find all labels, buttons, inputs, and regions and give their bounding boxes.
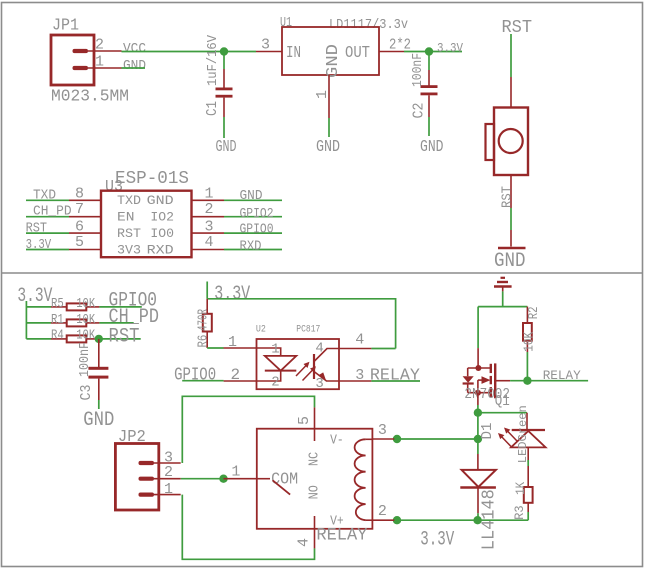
- svg-text:1: 1: [164, 481, 173, 498]
- pin 6 RST: [69, 232, 101, 234]
- relay K1: [257, 407, 395, 548]
- wire R6 to opto pin 1: [207, 347, 223, 349]
- opto LED: [257, 348, 281, 356]
- svg-text:D1: D1: [480, 423, 496, 440]
- node junction source/LED: [474, 409, 482, 417]
- wire R1 to CH_PD: [99, 322, 133, 324]
- wire Q1 source down: [477, 393, 479, 405]
- svg-text:VCC: VCC: [123, 42, 146, 57]
- capacitor C2: [410, 53, 438, 119]
- svg-text:RST: RST: [109, 326, 140, 349]
- svg-text:R3: R3: [512, 505, 527, 520]
- svg-text:1: 1: [228, 334, 237, 351]
- opto emission arrows: [296, 362, 316, 381]
- wire GPIO0 to opto pin 2: [182, 380, 223, 382]
- svg-text:C2: C2: [411, 103, 428, 119]
- pin 7 CH_PD: [69, 216, 101, 218]
- Q1 body diode: [467, 368, 469, 376]
- svg-text:GND: GND: [316, 138, 340, 157]
- svg-text:5: 5: [75, 234, 84, 251]
- svg-text:100nF: 100nF: [410, 53, 426, 87]
- svg-text:TXD: TXD: [33, 188, 56, 203]
- svg-text:10K: 10K: [76, 313, 96, 328]
- resistor R4 10K: [51, 328, 99, 343]
- svg-text:IO2: IO2: [150, 210, 174, 225]
- svg-text:GPIO0: GPIO0: [174, 365, 216, 385]
- wire button to GND: [510, 175, 512, 208]
- wire 3.3V to resistor rows: [25, 301, 27, 339]
- svg-text:1K: 1K: [513, 482, 528, 495]
- node junction D1/relay V-: [474, 435, 482, 443]
- svg-text:GND: GND: [147, 193, 174, 208]
- svg-text:RXD: RXD: [147, 243, 174, 258]
- svg-text:2: 2: [378, 503, 387, 520]
- svg-text:3: 3: [315, 376, 323, 392]
- wire LED to R3: [527, 460, 529, 466]
- relay coil: [355, 439, 366, 520]
- svg-text:RST: RST: [117, 226, 141, 241]
- svg-text:GPIO2: GPIO2: [240, 207, 274, 222]
- svg-text:1uF/16V: 1uF/16V: [205, 34, 221, 86]
- wire D1 to bottom rail: [477, 513, 479, 520]
- svg-text:GND: GND: [324, 44, 343, 78]
- wire power to Q1/R2: [502, 291, 504, 306]
- wire JP2 pin3 to relay NC: [182, 396, 314, 463]
- wire VCC from JP1 to node: [122, 51, 225, 53]
- node junction JP2 pin2: [219, 475, 227, 483]
- svg-text:R2: R2: [527, 307, 542, 320]
- frame divider: [2, 272, 643, 274]
- pushbutton S1 RST: [486, 108, 529, 176]
- svg-text:U2: U2: [256, 325, 266, 336]
- pin 8 TXD: [69, 199, 101, 201]
- svg-text:GPIO0: GPIO0: [240, 223, 274, 238]
- svg-text:2: 2: [95, 37, 104, 54]
- svg-text:1: 1: [205, 186, 214, 203]
- svg-text:RST: RST: [26, 222, 47, 237]
- wire R2 to RELAY node: [526, 352, 528, 381]
- relay NC pin 5: [314, 429, 316, 441]
- node junction 3.3V/C2: [425, 47, 433, 55]
- svg-text:RELAY: RELAY: [316, 526, 368, 545]
- svg-text:10K: 10K: [523, 331, 538, 352]
- wire node to 3.3V label: [429, 51, 462, 53]
- wire bottom rail 3.3V: [397, 519, 528, 521]
- connector JP2: [115, 428, 180, 510]
- svg-text:3.3V: 3.3V: [420, 529, 454, 552]
- resistor R2 10K: [523, 307, 543, 353]
- node junction relay pin2: [393, 516, 401, 524]
- node junction gate/R2: [523, 377, 531, 385]
- wire JP2 pin1 to relay NO: [182, 495, 314, 560]
- diode D1 LL4148: [460, 423, 499, 551]
- svg-text:RELAY: RELAY: [370, 367, 420, 386]
- pin 1 of U2: [224, 347, 257, 349]
- svg-text:V-: V-: [330, 434, 344, 449]
- svg-text:4: 4: [296, 538, 313, 547]
- wire node to U1 IN: [224, 51, 256, 53]
- pin 2 of U1 output: [379, 51, 404, 53]
- svg-text:3: 3: [261, 37, 270, 54]
- relay NO pin 4: [314, 516, 316, 529]
- svg-text:3.3V: 3.3V: [17, 285, 52, 308]
- resistor R5 10K: [51, 297, 99, 312]
- resistor R6 470R: [197, 299, 212, 348]
- node junction D1/bottom rail: [473, 516, 481, 524]
- svg-text:GND: GND: [216, 138, 237, 157]
- LED LEDGreen: [498, 405, 546, 463]
- svg-text:2: 2: [164, 464, 173, 481]
- capacitor C1: [204, 34, 233, 117]
- module U3 ESP-01S: [101, 169, 192, 258]
- optocoupler U2 PC817: [256, 325, 339, 393]
- wire 3.3V rail to opto pin4: [207, 299, 395, 349]
- node junction relay pin3: [393, 435, 401, 443]
- capacitor C3: [78, 339, 108, 401]
- svg-text:4: 4: [205, 234, 214, 251]
- power symbol 3.3V top right: [494, 278, 512, 292]
- svg-text:NO: NO: [307, 485, 323, 499]
- svg-text:3.3V: 3.3V: [26, 238, 52, 253]
- svg-text:GND: GND: [494, 250, 526, 273]
- wire RST to button: [510, 34, 512, 77]
- svg-text:OUT: OUT: [345, 44, 370, 63]
- pin 1 GND: [192, 199, 225, 201]
- wire C3 to GND: [98, 400, 100, 409]
- svg-text:GND: GND: [420, 138, 444, 157]
- svg-text:2: 2: [271, 375, 279, 391]
- svg-text:IO0: IO0: [150, 226, 174, 241]
- svg-text:1: 1: [271, 342, 279, 358]
- pin 4 RXD: [192, 249, 225, 251]
- svg-text:R4: R4: [51, 328, 64, 343]
- svg-text:R6: R6: [197, 335, 212, 348]
- node junction VCC/C1: [220, 47, 228, 55]
- pin 3 GPIO0: [192, 232, 225, 234]
- svg-text:1: 1: [314, 90, 331, 99]
- resistor R3 1K: [512, 466, 533, 520]
- svg-text:ESP-01S: ESP-01S: [115, 169, 189, 189]
- wire U1 out to node: [404, 51, 429, 53]
- wire C1 to GND: [223, 117, 225, 138]
- svg-text:GND: GND: [83, 409, 114, 432]
- svg-text:8: 8: [75, 186, 84, 203]
- relay pin 2: [372, 519, 394, 521]
- svg-text:LEDGreen: LEDGreen: [516, 405, 530, 463]
- svg-text:7: 7: [75, 201, 84, 218]
- svg-text:EN: EN: [117, 210, 135, 225]
- svg-text:C3: C3: [78, 385, 95, 401]
- svg-text:C1: C1: [204, 101, 221, 116]
- wire relay V- to D1 node: [397, 438, 478, 440]
- transistor Q1 2N7002: [463, 363, 510, 409]
- node junction RST/C3: [95, 335, 103, 343]
- svg-text:3V3: 3V3: [117, 243, 141, 258]
- svg-text:GND: GND: [240, 189, 263, 204]
- svg-text:2: 2: [205, 201, 214, 218]
- svg-text:1: 1: [95, 54, 104, 71]
- svg-text:4: 4: [315, 341, 323, 357]
- svg-text:PC817: PC817: [296, 325, 320, 336]
- svg-text:R1: R1: [51, 313, 64, 328]
- svg-text:COM: COM: [271, 470, 298, 489]
- pin 2 GPIO2: [192, 216, 225, 218]
- pin 4 of U2: [339, 348, 371, 350]
- wire R4 to RST: [99, 338, 140, 340]
- svg-text:CH_PD: CH_PD: [33, 205, 72, 220]
- svg-text:IN: IN: [286, 44, 301, 63]
- ground symbol: [498, 247, 526, 250]
- pin 3 of U1: [256, 51, 282, 53]
- svg-text:3.3V: 3.3V: [437, 41, 463, 56]
- svg-text:NC: NC: [307, 452, 323, 466]
- svg-text:3.3V: 3.3V: [214, 283, 250, 306]
- pin 1 of U1 to GND: [328, 75, 330, 118]
- relay switch arm: [257, 478, 270, 480]
- svg-text:10K: 10K: [76, 328, 96, 343]
- svg-text:GND: GND: [123, 59, 146, 74]
- power label 3.3V mid: [206, 282, 208, 299]
- svg-text:Q1: Q1: [495, 394, 510, 410]
- svg-text:TXD: TXD: [117, 193, 141, 208]
- pin 3 of U2 to RELAY: [339, 380, 371, 382]
- regulator U1 LD1117/3.3v: [280, 15, 408, 78]
- wire GND stub from JP1: [122, 67, 146, 69]
- wire node to LED: [478, 412, 527, 414]
- svg-text:R5: R5: [51, 297, 64, 312]
- wire C2 to GND: [428, 117, 430, 136]
- svg-text:RST: RST: [501, 186, 516, 208]
- svg-text:470R: 470R: [197, 309, 212, 331]
- wire JP2 pin2 to relay COM: [181, 478, 224, 480]
- svg-text:RELAY: RELAY: [543, 368, 581, 383]
- pin 5 3.3V: [69, 249, 101, 251]
- wire node down to D1 node: [477, 413, 479, 439]
- resistor R1 10K: [51, 313, 99, 328]
- svg-text:4: 4: [355, 332, 364, 349]
- relay pin 3: [372, 438, 394, 440]
- wire R3 to bottom rail: [527, 512, 529, 520]
- gate wire to RELAY node: [495, 380, 510, 382]
- svg-text:JP1: JP1: [52, 17, 79, 36]
- svg-text:RST: RST: [502, 18, 533, 38]
- svg-text:RXD: RXD: [240, 240, 262, 255]
- wire R5 to GPIO0: [99, 306, 141, 308]
- svg-text:M023.5MM: M023.5MM: [51, 87, 129, 106]
- svg-text:100nF: 100nF: [78, 342, 93, 377]
- connector JP1: [51, 17, 129, 106]
- svg-text:3: 3: [355, 367, 364, 384]
- opto phototransistor: [313, 354, 315, 379]
- svg-text:10K: 10K: [76, 297, 96, 312]
- svg-text:LD1117/3.3v: LD1117/3.3v: [329, 17, 408, 33]
- svg-text:3: 3: [378, 422, 387, 439]
- svg-text:5: 5: [296, 416, 313, 425]
